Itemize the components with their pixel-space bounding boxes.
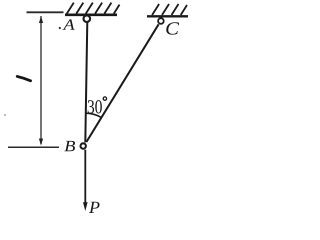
hatching above support A [67, 3, 120, 14]
dimension extension line (bottom, at B level) [8, 146, 59, 148]
label B [64, 141, 75, 151]
dimension arrowhead top [39, 16, 43, 23]
label l (rotated along dimension) [17, 76, 30, 80]
dimension line l (vertical with arrows) [40, 16, 42, 144]
label P [89, 202, 100, 213]
ceiling line at support A [65, 14, 117, 17]
dimension extension line (top, at A level) [27, 11, 64, 13]
dimension arrowhead bottom [39, 139, 43, 146]
pin B (hinge circle) [81, 143, 86, 148]
speck before label A [59, 27, 61, 29]
label C [166, 22, 179, 34]
30 degree angle arc at B [85, 113, 102, 118]
label A [63, 19, 75, 29]
hatching above support C [152, 4, 187, 15]
degree symbol of 30 [103, 97, 106, 100]
bar BC (diagonal rod) [86, 24, 158, 142]
speck left margin [4, 114, 6, 116]
bar AB (vertical rod) [85, 22, 87, 143]
wire: load line below B [84, 150, 86, 204]
ceiling line at support C [147, 15, 188, 17]
pin C (hinge circle) [158, 18, 164, 24]
label 30 degrees: digit 0 [95, 100, 102, 113]
label 30 degrees: digit 3 [88, 100, 94, 113]
pin A (hinge circle) [84, 15, 91, 22]
force P arrowhead [83, 202, 88, 211]
